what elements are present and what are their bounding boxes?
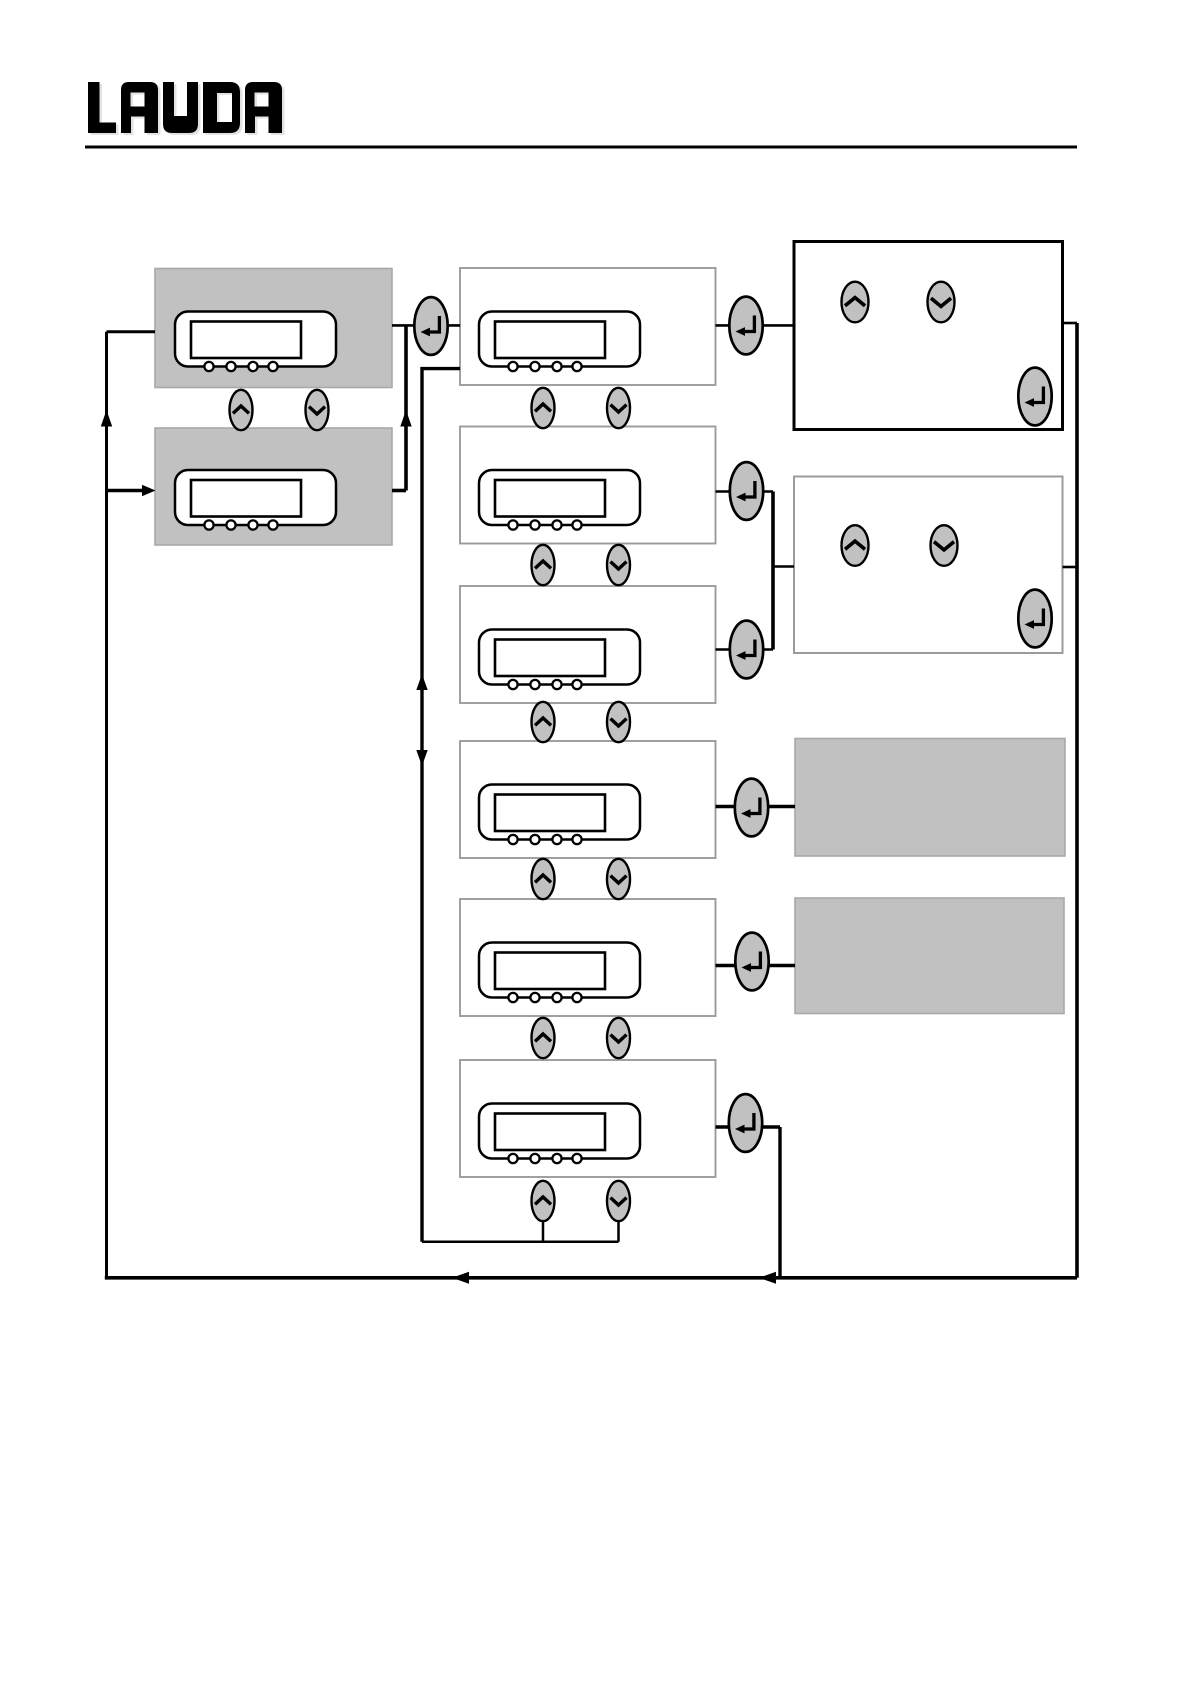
wire L2 right	[392, 489, 406, 493]
enter key E1 (L1 to M1)	[414, 297, 447, 355]
display in M1	[479, 312, 640, 372]
down key between M1 and M2	[607, 388, 630, 428]
display in M2	[479, 470, 640, 530]
menu box M2	[460, 427, 716, 544]
wire bottom return line	[105, 1276, 1077, 1280]
down key below M6	[607, 1181, 630, 1221]
wire M6 exit vertical	[778, 1127, 781, 1278]
wire junction vertical at x773	[771, 492, 775, 650]
wire right loop vertical	[1075, 323, 1079, 1278]
display in M3	[479, 630, 640, 690]
arrowhead left on bottom return (right)	[759, 1272, 776, 1284]
display in L1	[175, 312, 336, 372]
down key between M3 and M4	[607, 702, 630, 742]
wire M1 to R1	[716, 324, 795, 327]
up key between M4 and M5	[532, 859, 555, 899]
down key between M2 and M3	[607, 545, 630, 585]
header rule	[85, 146, 1077, 149]
arrowhead up on x406 junction	[400, 410, 411, 427]
submenu box R1	[794, 242, 1063, 430]
menu box M1	[460, 268, 716, 385]
up key between L1 and L2	[230, 390, 253, 430]
wire L1 to M1	[392, 324, 460, 327]
up key between M5 and M6	[532, 1018, 555, 1058]
enter key E2 (M1 to R1)	[729, 297, 762, 355]
wire M5 to G2	[716, 964, 796, 967]
enter key in R2	[1018, 590, 1051, 648]
arrowhead into L2	[142, 485, 156, 497]
wire scroll loop bottom	[422, 1241, 619, 1244]
up key between M1 and M2	[532, 388, 555, 428]
down key in R1	[928, 282, 955, 323]
down key between M4 and M5	[607, 859, 630, 899]
wire into R2	[773, 565, 794, 568]
up key between M3 and M4	[532, 702, 555, 742]
down key between L1 and L2	[306, 390, 329, 430]
enter key E6 (M5 to G2)	[735, 933, 768, 991]
submenu box R2	[794, 477, 1063, 654]
wire scroll loop top elbow	[422, 369, 460, 1242]
LAUDA logo	[88, 82, 282, 133]
up key in R1	[842, 282, 869, 323]
menu box M4	[460, 741, 716, 858]
down key in R2	[931, 525, 958, 566]
state box L1 (left, highlighted)	[155, 269, 392, 388]
enter key E3 (M2 branch)	[730, 462, 763, 520]
up key below M6	[532, 1181, 555, 1221]
wire M4 to G1	[716, 805, 796, 808]
wire left loop vertical	[105, 332, 108, 1278]
wire arrow into L2	[107, 489, 145, 493]
display in M4	[479, 785, 640, 845]
arrowhead up on scroll loop	[416, 674, 427, 690]
arrowhead left on bottom return (mid)	[452, 1272, 469, 1284]
display in L2	[175, 470, 336, 530]
action box G1 (highlighted)	[795, 739, 1065, 857]
display in M5	[479, 943, 640, 1003]
LAUDA logo shadow	[91, 84, 285, 135]
wire M6 exit	[716, 1125, 781, 1128]
wire junction vertical at x406	[404, 325, 408, 490]
display in M6	[479, 1104, 640, 1164]
wire R2 right exit	[1063, 566, 1078, 569]
state box L2 (left, highlighted)	[155, 428, 392, 545]
wire stem under down key	[617, 1219, 620, 1242]
wire stem under up key	[542, 1219, 545, 1242]
wire M2 right	[716, 490, 774, 493]
down key between M5 and M6	[607, 1018, 630, 1058]
enter key E5 (M4 to G1)	[735, 779, 768, 837]
arrowhead down on scroll loop	[416, 750, 427, 766]
arrowhead up on left loop	[101, 410, 112, 427]
menu box M3	[460, 586, 716, 703]
enter key in R1	[1018, 368, 1051, 426]
wire into L1	[107, 330, 156, 333]
menu box M6	[460, 1060, 716, 1177]
wire R1 right exit	[1063, 322, 1078, 325]
enter key E7 (M6 exit)	[729, 1094, 762, 1152]
action box G2 (highlighted)	[795, 898, 1064, 1014]
up key in R2	[842, 525, 869, 566]
wire M3 right	[716, 648, 774, 651]
enter key E4 (M3 branch)	[730, 621, 763, 679]
menu box M5	[460, 899, 716, 1016]
up key between M2 and M3	[532, 545, 555, 585]
